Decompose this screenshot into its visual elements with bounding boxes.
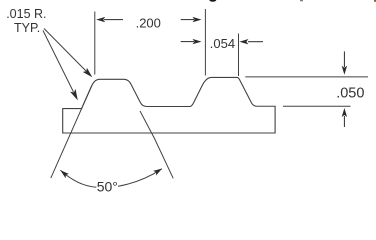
svg-text:50°: 50° (97, 178, 118, 194)
svg-text:.015 R.: .015 R. (6, 7, 46, 21)
svg-text:TYP.: TYP. (14, 21, 40, 35)
svg-text:.054: .054 (210, 36, 235, 51)
svg-text:.200: .200 (136, 16, 161, 31)
svg-text:.050: .050 (336, 85, 364, 101)
